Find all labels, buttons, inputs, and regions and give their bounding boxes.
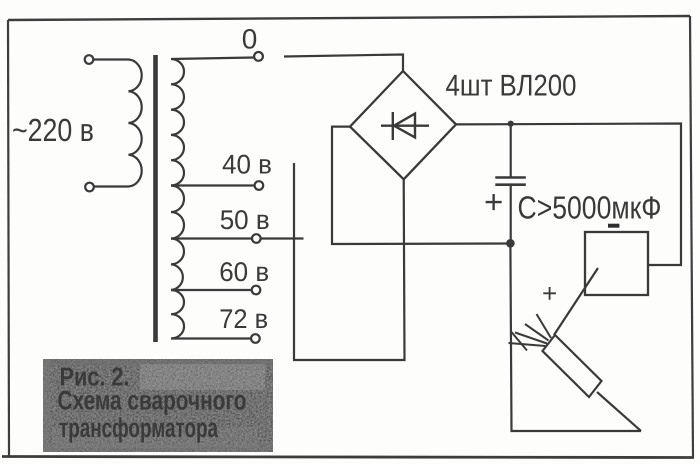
wire minus rail down to electrode loop	[510, 243, 641, 431]
battery box	[585, 232, 648, 295]
wire 0 to bridge top	[284, 55, 403, 72]
svg-text:~220 в: ~220 в	[12, 112, 94, 148]
welding cable diagonal	[554, 268, 598, 335]
tap wire 60в	[171, 289, 252, 291]
primary terminal bottom	[85, 183, 94, 192]
svg-text:4шт ВЛ200: 4шт ВЛ200	[446, 70, 577, 103]
secondary winding	[171, 58, 254, 339]
junction top	[508, 121, 514, 127]
svg-text:72 в: 72 в	[219, 304, 268, 334]
terminal 60в	[252, 286, 261, 295]
primary terminal top	[85, 55, 94, 64]
svg-text:+: +	[484, 183, 503, 220]
wire electrode to bottom	[597, 392, 641, 431]
terminal 50в	[252, 234, 261, 243]
tap wire 50в	[171, 237, 252, 239]
svg-text:40 в: 40 в	[222, 150, 272, 180]
svg-text:+: +	[542, 278, 557, 308]
svg-text:60 в: 60 в	[219, 257, 269, 287]
tap wire 40в	[171, 184, 255, 186]
svg-text:Схема сварочного: Схема сварочного	[58, 386, 247, 416]
wire bridge bottom to 50в tap	[294, 163, 405, 360]
wire 50в tap extension	[261, 237, 304, 239]
terminal 72в	[251, 334, 260, 343]
capacitor C	[495, 124, 526, 244]
svg-text:0: 0	[242, 24, 258, 55]
terminal 0	[254, 52, 263, 61]
caption box	[43, 359, 273, 452]
wire bridge right to plus rail	[456, 124, 681, 266]
bridge rectifier	[350, 71, 456, 179]
electrode body	[543, 335, 602, 397]
transformer core	[153, 55, 158, 342]
caption text	[58, 362, 247, 444]
junction bottom	[506, 239, 515, 248]
tap wire 72в	[171, 337, 251, 339]
label - battery	[608, 224, 619, 228]
primary winding	[93, 60, 142, 187]
arc rays	[509, 314, 552, 351]
svg-text:50 в: 50 в	[220, 205, 270, 235]
svg-text:трансформатора: трансформатора	[59, 413, 219, 443]
diode symbol	[381, 112, 429, 140]
terminal 40в	[255, 181, 264, 190]
svg-text:С>5000мкФ: С>5000мкФ	[518, 190, 662, 226]
wire bridge left corner to minus rail	[332, 127, 510, 244]
